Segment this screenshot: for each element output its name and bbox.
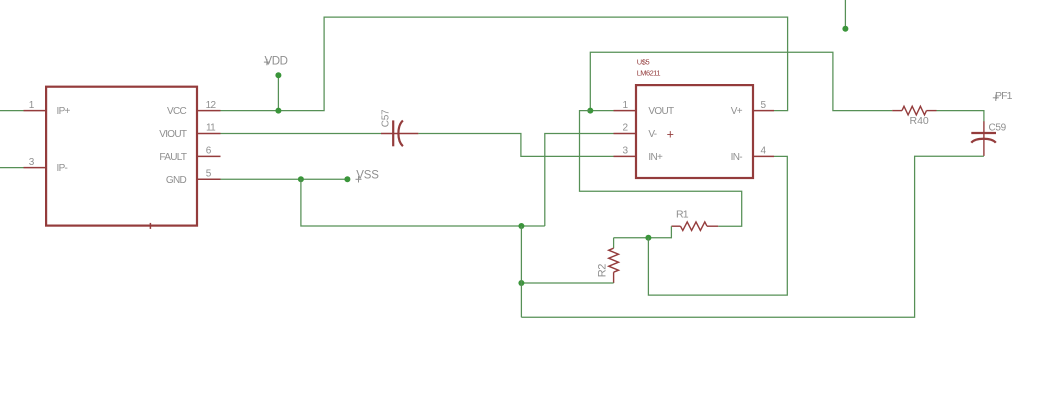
svg-text:3: 3 <box>29 157 35 168</box>
pin 11 VIOUT <box>159 123 220 140</box>
resistor R1 <box>671 209 718 231</box>
supply symbol VDD <box>264 55 288 67</box>
node R2 bottom junction dot <box>518 280 524 286</box>
op-amp pin 1 VOUT <box>614 100 674 117</box>
svg-text:3: 3 <box>622 146 628 157</box>
node VSS junction dot <box>518 223 524 229</box>
node VOUT junction dot <box>587 108 593 114</box>
svg-text:FAULT: FAULT <box>159 152 186 163</box>
svg-text:VCC: VCC <box>167 106 186 117</box>
wire R1 left lead to R2 top node <box>614 226 672 238</box>
svg-text:IP+: IP+ <box>57 106 71 117</box>
pin 5 GND <box>166 169 221 186</box>
svg-text:PF1: PF1 <box>995 90 1013 102</box>
node GND junction dot <box>298 176 304 182</box>
svg-text:C59: C59 <box>989 123 1007 134</box>
wire VOUT feedback run to R1 <box>580 111 742 227</box>
svg-text:IN+: IN+ <box>648 152 663 163</box>
svg-text:1: 1 <box>622 100 628 111</box>
svg-text:4: 4 <box>761 146 767 157</box>
pin 12 VCC <box>167 100 221 117</box>
node VDD junction dot <box>275 108 281 114</box>
op-amp pin 2 V- <box>614 123 657 140</box>
svg-text:GND: GND <box>166 175 187 186</box>
svg-text:V+: V+ <box>731 106 743 117</box>
wire C57 to IN+ pin3 <box>418 134 613 157</box>
svg-text:R2: R2 <box>597 264 609 278</box>
op-amp pin 5 V+ <box>731 100 774 117</box>
wire VDD supply stub <box>277 75 279 110</box>
svg-text:VOUT: VOUT <box>648 106 674 117</box>
svg-text:11: 11 <box>206 123 216 134</box>
wire VSS net down and right to V- riser <box>301 179 545 226</box>
capacitor C59 <box>971 121 1006 156</box>
node stray wire end dot <box>842 26 848 32</box>
svg-text:12: 12 <box>206 100 217 111</box>
wire V- riser to pin 2 <box>545 134 614 227</box>
svg-text:VDD: VDD <box>265 55 288 67</box>
svg-text:R40: R40 <box>910 115 929 127</box>
node VSS supply dot <box>344 176 350 182</box>
capacitor C57 <box>380 109 418 146</box>
svg-text:+: + <box>667 127 674 141</box>
wire R2 bottom to VSS vertical <box>521 282 613 284</box>
svg-text:6: 6 <box>206 146 212 157</box>
wire VIOUT pin11 to C57 <box>221 133 382 135</box>
svg-text:LM6211: LM6211 <box>637 68 661 77</box>
op-amp U$5 body <box>636 57 753 178</box>
wire stray net top right <box>844 0 846 29</box>
pin 1 IP+ <box>0 100 71 117</box>
node VDD supply pin dot <box>275 72 281 78</box>
svg-text:5: 5 <box>761 100 767 111</box>
svg-text:IP-: IP- <box>57 163 68 174</box>
pin 6 FAULT <box>159 146 220 163</box>
wire VSS bottom run to C59 <box>521 156 984 317</box>
svg-text:1: 1 <box>29 100 35 111</box>
resistor R2 <box>597 238 619 283</box>
wire GND pin5 to VSS symbol <box>221 178 348 180</box>
op-amp pin 4 IN- <box>731 146 774 163</box>
test point PF1 <box>993 90 1013 102</box>
node R1/R2/IN- junction dot <box>645 235 651 241</box>
svg-text:V-: V- <box>648 129 656 140</box>
svg-text:VIOUT: VIOUT <box>159 129 187 140</box>
svg-text:C57: C57 <box>380 109 391 127</box>
IC body current sensor (left) <box>46 87 197 229</box>
wire R40 to C59 top <box>937 111 984 122</box>
op-amp pin 3 IN+ <box>614 146 664 163</box>
wire VSS vertical drop <box>520 226 522 317</box>
svg-text:2: 2 <box>622 123 628 134</box>
resistor R40 <box>892 106 936 127</box>
wire VOUT pin1 to junction <box>590 110 613 112</box>
pin 3 IP- <box>0 157 68 174</box>
wire VDD net: VCC pin12 to V+ pin5 top run <box>221 17 788 111</box>
svg-text:U$5: U$5 <box>637 57 650 66</box>
svg-text:5: 5 <box>206 169 212 180</box>
supply symbol VSS <box>356 169 380 182</box>
wire IN- net down-around loop to pin 4 <box>648 156 787 295</box>
svg-text:IN-: IN- <box>731 152 743 163</box>
wire VOUT net up-and-over to R40 <box>590 52 892 110</box>
svg-text:R1: R1 <box>676 209 689 221</box>
